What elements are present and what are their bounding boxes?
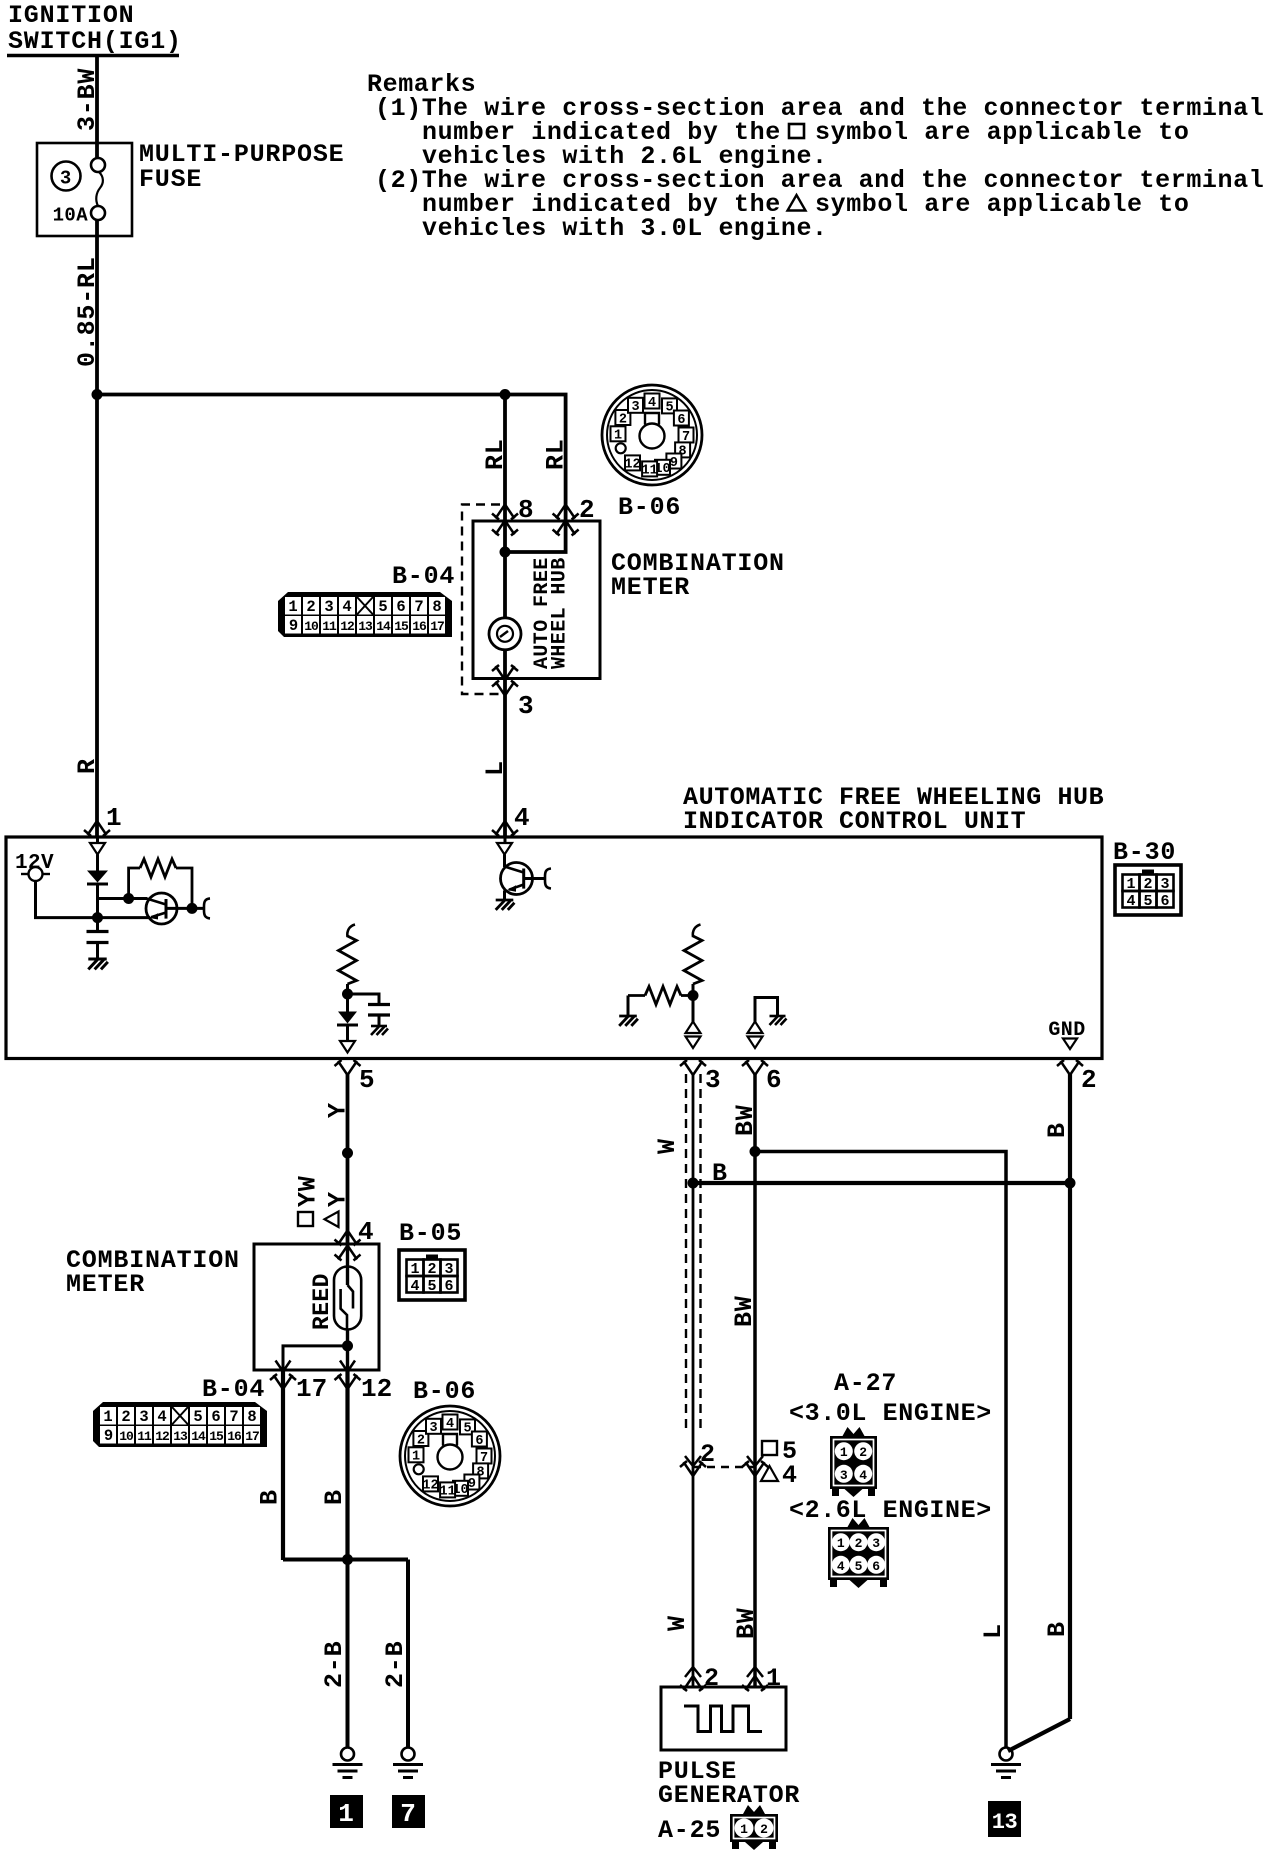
wire W pin3 to pulse generator	[692, 1074, 695, 1687]
A-27 crossing chevrons W wire	[685, 1456, 701, 1466]
svg-text:4: 4	[648, 396, 656, 411]
wire Q2 emitter to ground	[503, 891, 506, 901]
pin 1 internal terminal triangle	[96, 837, 99, 845]
svg-text:9: 9	[468, 1477, 476, 1492]
wire L meter pin3 to control unit pin 4	[503, 695, 507, 838]
svg-text:9: 9	[289, 617, 298, 635]
svg-text:symbol are applicable to: symbol are applicable to	[815, 118, 1189, 147]
svg-text:4: 4	[859, 1468, 867, 1483]
svg-text:9: 9	[104, 1427, 113, 1445]
svg-text:2: 2	[1081, 1065, 1097, 1095]
transistor Q1	[146, 893, 204, 924]
wire R4 to ground	[627, 996, 630, 1017]
junction node B crosslink	[1065, 1178, 1076, 1189]
connector B-06 (round 12-pin)	[400, 1406, 500, 1506]
wire B from pin 12	[345, 1372, 349, 1561]
wire joining B wires	[283, 1558, 408, 1562]
svg-text:3: 3	[518, 691, 534, 721]
wire 0.85-RL fuse to junction	[95, 220, 99, 395]
svg-text:B-04: B-04	[202, 1375, 265, 1404]
svg-text:4: 4	[157, 1408, 166, 1426]
svg-text:4: 4	[410, 1278, 419, 1295]
wire diode node to transistor Q1 base area	[98, 897, 148, 900]
svg-text:1: 1	[837, 1536, 845, 1551]
svg-text:11: 11	[322, 619, 337, 634]
svg-text:2: 2	[760, 1822, 768, 1837]
internal lead hook Q2	[545, 869, 551, 889]
svg-text:6: 6	[211, 1408, 220, 1426]
pin 8 terminal chevrons	[492, 505, 518, 520]
wire BW junction to L wire	[755, 1152, 1006, 1748]
svg-text:11: 11	[641, 464, 657, 479]
junction node R3-R4	[688, 990, 699, 1001]
svg-text:4: 4	[446, 1417, 454, 1432]
svg-text:2: 2	[619, 412, 627, 427]
svg-text:1: 1	[106, 803, 122, 833]
svg-text:11: 11	[137, 1429, 152, 1444]
capacitor C2 branch	[348, 994, 380, 1004]
wire B crosslink	[693, 1181, 1070, 1185]
svg-text:BW: BW	[731, 1104, 760, 1136]
svg-text:16: 16	[227, 1429, 242, 1444]
svg-text:13: 13	[173, 1429, 188, 1444]
combination meter (upper) dashed boundary	[462, 505, 500, 695]
svg-text:12: 12	[624, 458, 640, 473]
svg-text:RL: RL	[542, 438, 571, 470]
ground (earth) right	[393, 1748, 423, 1778]
pin 1 chevron	[84, 821, 110, 836]
svg-text:15: 15	[394, 619, 409, 634]
svg-text:B-06: B-06	[618, 493, 681, 522]
ground (internal) below C1	[88, 959, 108, 969]
wire bulb to pin 3	[503, 650, 507, 694]
svg-text:3: 3	[324, 598, 333, 616]
wire B from pin 17	[281, 1372, 285, 1561]
svg-text:12: 12	[155, 1429, 170, 1444]
svg-text:FUSE: FUSE	[139, 165, 202, 194]
pin 4 internal terminal triangle	[504, 837, 507, 845]
svg-text:11: 11	[439, 1485, 455, 1500]
connector A-27 3.0L (4-pin)	[830, 1427, 877, 1497]
svg-text:12V: 12V	[15, 852, 54, 875]
reed switch body	[334, 1267, 361, 1330]
wire 2-B left to ground	[346, 1560, 350, 1749]
pin 6 terminal Y	[742, 1060, 768, 1075]
svg-text:8: 8	[518, 495, 534, 525]
svg-text:17: 17	[430, 619, 444, 634]
svg-text:A-25: A-25	[658, 1816, 721, 1845]
svg-text:METER: METER	[611, 573, 690, 602]
pin 3 terminal chevrons	[492, 665, 518, 680]
square wave symbol	[684, 1706, 762, 1732]
diode D1	[96, 855, 99, 872]
junction node meter2	[342, 1340, 353, 1351]
svg-text:12: 12	[340, 619, 355, 634]
pin 6 internal wire and ground	[755, 998, 778, 1023]
svg-text:IGNITION: IGNITION	[8, 1, 134, 30]
svg-text:6: 6	[444, 1278, 453, 1295]
svg-text:5: 5	[463, 1422, 471, 1437]
svg-text:3: 3	[429, 1421, 437, 1436]
svg-text:10: 10	[119, 1429, 134, 1444]
svg-text:1: 1	[614, 429, 622, 444]
resistor R2	[339, 936, 357, 984]
pin 2 terminal Y	[1057, 1060, 1083, 1075]
junction node RL split	[500, 389, 511, 400]
wire reed junction to pin 12	[346, 1346, 349, 1372]
svg-text:14: 14	[376, 619, 391, 634]
svg-text:1: 1	[103, 1408, 112, 1426]
svg-text:2: 2	[121, 1408, 130, 1426]
svg-text:2: 2	[855, 1536, 863, 1551]
svg-text:14: 14	[191, 1429, 206, 1444]
pulse generator pin 1 arrows	[747, 1667, 763, 1677]
svg-text:2: 2	[306, 598, 315, 616]
pin 2 terminal chevrons	[553, 505, 579, 520]
svg-text:5: 5	[855, 1559, 863, 1574]
svg-text:3: 3	[631, 400, 639, 415]
svg-text:B: B	[1043, 1621, 1072, 1637]
shielded cable around W wire	[685, 1074, 687, 1432]
svg-text:1: 1	[338, 1799, 354, 1829]
svg-text:REED: REED	[309, 1273, 335, 1330]
transistor Q2	[501, 855, 546, 895]
connector B-04 (17-pin)	[93, 1402, 267, 1447]
svg-text:6: 6	[396, 598, 405, 616]
svg-text:6: 6	[766, 1065, 782, 1095]
pin 5 internal terminal triangle	[340, 1041, 355, 1053]
svg-text:<2.6L ENGINE>: <2.6L ENGINE>	[789, 1496, 992, 1525]
pin 5 terminal Y	[335, 1060, 361, 1075]
svg-text:0.85-RL: 0.85-RL	[73, 256, 102, 367]
connector B-06 (round 12-pin)	[602, 385, 702, 485]
combination meter (upper) box	[473, 521, 600, 679]
svg-text:5: 5	[665, 401, 673, 416]
wire BW pin6 to pulse generator	[753, 1074, 757, 1687]
wire from junction to RL branch pin 2	[97, 395, 566, 553]
diode D2	[346, 994, 349, 1012]
svg-text:<3.0L ENGINE>: <3.0L ENGINE>	[789, 1399, 992, 1428]
svg-text:16: 16	[412, 619, 427, 634]
svg-text:INDICATOR CONTROL UNIT: INDICATOR CONTROL UNIT	[683, 807, 1026, 836]
svg-text:1: 1	[740, 1822, 748, 1837]
pin 17 chevron	[276, 1361, 291, 1372]
A-27 crossing chevrons BW wire	[747, 1456, 763, 1466]
svg-text:2: 2	[859, 1445, 867, 1460]
svg-text:10: 10	[304, 619, 319, 634]
svg-text:A-27: A-27	[834, 1369, 897, 1398]
svg-text:13: 13	[992, 1810, 1018, 1835]
ground (internal) below C2	[371, 1026, 388, 1035]
svg-text:6: 6	[872, 1559, 880, 1574]
svg-text:B-06: B-06	[413, 1377, 476, 1406]
svg-text:Y: Y	[324, 1191, 353, 1207]
junction node R2-D2	[342, 989, 353, 1000]
connector B-04 (17-pin)	[278, 592, 452, 637]
svg-text:15: 15	[209, 1429, 224, 1444]
svg-text:4: 4	[1126, 893, 1135, 910]
label square-YW (2.6L wire color)	[298, 1212, 313, 1226]
svg-text:W: W	[653, 1138, 682, 1154]
connector B-30	[1115, 865, 1181, 915]
svg-text:B-04: B-04	[392, 562, 455, 591]
svg-text:17: 17	[296, 1374, 327, 1404]
connector B-05	[399, 1250, 465, 1300]
svg-text:4: 4	[782, 1461, 798, 1490]
junction node base resistor	[123, 893, 134, 904]
svg-text:1: 1	[766, 1664, 782, 1693]
page reference box 13	[988, 1801, 1021, 1837]
control unit box B-30	[6, 837, 1102, 1059]
triangle symbol in remark 2	[788, 195, 806, 211]
svg-text:4: 4	[514, 803, 530, 833]
resistor R1	[129, 868, 140, 899]
pin 12 chevron	[340, 1361, 355, 1372]
svg-text:1: 1	[840, 1445, 848, 1460]
svg-text:B-30: B-30	[1113, 838, 1176, 867]
svg-text:12: 12	[361, 1374, 392, 1404]
svg-text:symbol are applicable to: symbol are applicable to	[815, 190, 1189, 219]
svg-text:4: 4	[342, 598, 351, 616]
svg-text:3: 3	[872, 1536, 880, 1551]
svg-text:2-B: 2-B	[320, 1641, 349, 1688]
ground (internal) Q2 emitter	[496, 900, 515, 910]
svg-text:4: 4	[837, 1559, 845, 1574]
indicator bulb AUTO FREE WHEEL HUB	[489, 618, 521, 650]
svg-text:7: 7	[414, 598, 423, 616]
svg-text:3: 3	[705, 1065, 721, 1095]
svg-text:3: 3	[840, 1468, 848, 1483]
combination meter (lower) box	[254, 1244, 379, 1370]
label triangle-4	[761, 1466, 778, 1481]
svg-text:1: 1	[288, 598, 297, 616]
resistor R4	[628, 994, 645, 997]
svg-text:17: 17	[245, 1429, 259, 1444]
connector A-25 (2-pin)	[730, 1805, 778, 1850]
svg-text:BW: BW	[732, 1607, 761, 1639]
svg-text:METER: METER	[66, 1270, 145, 1299]
svg-text:3: 3	[60, 168, 72, 190]
svg-text:WHEEL HUB: WHEEL HUB	[549, 557, 572, 669]
wire R from junction to control unit pin 1	[95, 395, 99, 838]
svg-text:5: 5	[427, 1278, 436, 1295]
wire 2-B right to ground	[406, 1560, 410, 1749]
pin 3 internal terminal triangles	[692, 996, 695, 1023]
svg-text:2-B: 2-B	[381, 1641, 410, 1688]
svg-text:5: 5	[193, 1408, 202, 1426]
svg-text:5: 5	[1143, 893, 1152, 910]
junction node shield to B	[688, 1178, 699, 1189]
wire RL down to meter pin 8	[503, 395, 507, 619]
capacitor C1	[96, 918, 99, 930]
svg-text:B: B	[712, 1159, 728, 1188]
svg-text:7: 7	[400, 1799, 416, 1829]
pin 4 chevron meter2	[335, 1231, 361, 1246]
svg-text:B: B	[320, 1489, 349, 1505]
svg-text:YW: YW	[294, 1175, 323, 1207]
svg-text:3: 3	[139, 1408, 148, 1426]
ground (earth) right lower	[991, 1748, 1021, 1778]
page reference box 1	[330, 1795, 363, 1828]
resistor R3	[684, 936, 702, 984]
svg-text:7: 7	[229, 1408, 238, 1426]
svg-text:5: 5	[359, 1065, 375, 1095]
svg-text:13: 13	[358, 619, 373, 634]
svg-text:R: R	[73, 758, 102, 774]
dashed connector line A-27	[693, 1466, 755, 1469]
wire 12V to emitter rail	[36, 881, 151, 918]
svg-text:9: 9	[670, 456, 678, 471]
square symbol in remark 1	[789, 124, 804, 138]
reed switch contacts	[346, 1244, 349, 1285]
ground (earth) left	[333, 1748, 363, 1778]
wire branch to pin 17	[283, 1346, 348, 1371]
wire 3-BW ignition switch to fuse	[95, 57, 99, 160]
label square-5	[762, 1441, 777, 1455]
svg-text:2: 2	[417, 1433, 425, 1448]
pulse generator box	[661, 1687, 786, 1750]
svg-text:W: W	[663, 1615, 692, 1631]
wire B pin2 down	[1068, 1074, 1072, 1719]
connector A-27 2.6L (6-pin)	[828, 1518, 889, 1588]
svg-text:L: L	[979, 1623, 1008, 1639]
pin 4 chevron	[492, 821, 518, 836]
junction node on Y wire	[342, 1148, 353, 1159]
svg-text:12: 12	[422, 1479, 438, 1494]
svg-text:8: 8	[432, 598, 441, 616]
junction node inside meter	[500, 547, 511, 558]
svg-text:BW: BW	[730, 1295, 759, 1327]
svg-text:B: B	[1043, 1122, 1072, 1138]
svg-text:6: 6	[1160, 893, 1169, 910]
pin 3 terminal Y	[680, 1060, 706, 1075]
resistor R3 top hook	[693, 925, 701, 938]
svg-text:2: 2	[704, 1664, 720, 1693]
wire diode to junction	[96, 884, 99, 918]
pin 6 internal terminal triangles	[748, 1022, 763, 1034]
wire B diagonal to ground	[1008, 1719, 1070, 1751]
svg-text:L: L	[481, 760, 510, 776]
svg-text:5: 5	[378, 598, 387, 616]
svg-text:6: 6	[677, 413, 685, 428]
svg-text:GENERATOR: GENERATOR	[658, 1781, 800, 1810]
svg-text:B: B	[256, 1489, 285, 1505]
svg-text:6: 6	[475, 1434, 483, 1449]
svg-text:2: 2	[579, 495, 595, 525]
svg-text:1: 1	[412, 1450, 420, 1465]
svg-text:RL: RL	[481, 438, 510, 470]
svg-text:Y: Y	[324, 1102, 353, 1118]
svg-text:8: 8	[247, 1408, 256, 1426]
junction node B wires	[342, 1554, 353, 1565]
wire reed to junction	[346, 1329, 349, 1346]
ground (internal) below R4	[619, 1016, 638, 1026]
resistor R2 top hook	[347, 925, 355, 938]
junction node BW to L	[750, 1146, 761, 1157]
svg-text:3-BW: 3-BW	[73, 68, 102, 131]
junction node 12V rail	[92, 912, 103, 923]
fuse F3 multi-purpose fuse	[37, 143, 132, 236]
svg-text:SWITCH(IG1): SWITCH(IG1)	[8, 27, 182, 56]
junction node collector	[187, 903, 198, 914]
page reference box 7	[392, 1795, 425, 1828]
wire Y pin5 to meter pin 4	[346, 1074, 350, 1244]
internal lead hook Q1	[204, 898, 210, 918]
pin 2 internal terminal triangle GND	[1063, 1039, 1077, 1050]
pulse generator pin 2 arrows	[685, 1667, 701, 1677]
svg-text:10A: 10A	[53, 205, 89, 227]
svg-text:vehicles with 3.0L engine.: vehicles with 3.0L engine.	[422, 214, 828, 243]
label triangle-Y (3.0L wire color)	[325, 1212, 339, 1228]
svg-text:B-05: B-05	[399, 1219, 462, 1248]
junction node at fuse output	[92, 389, 103, 400]
